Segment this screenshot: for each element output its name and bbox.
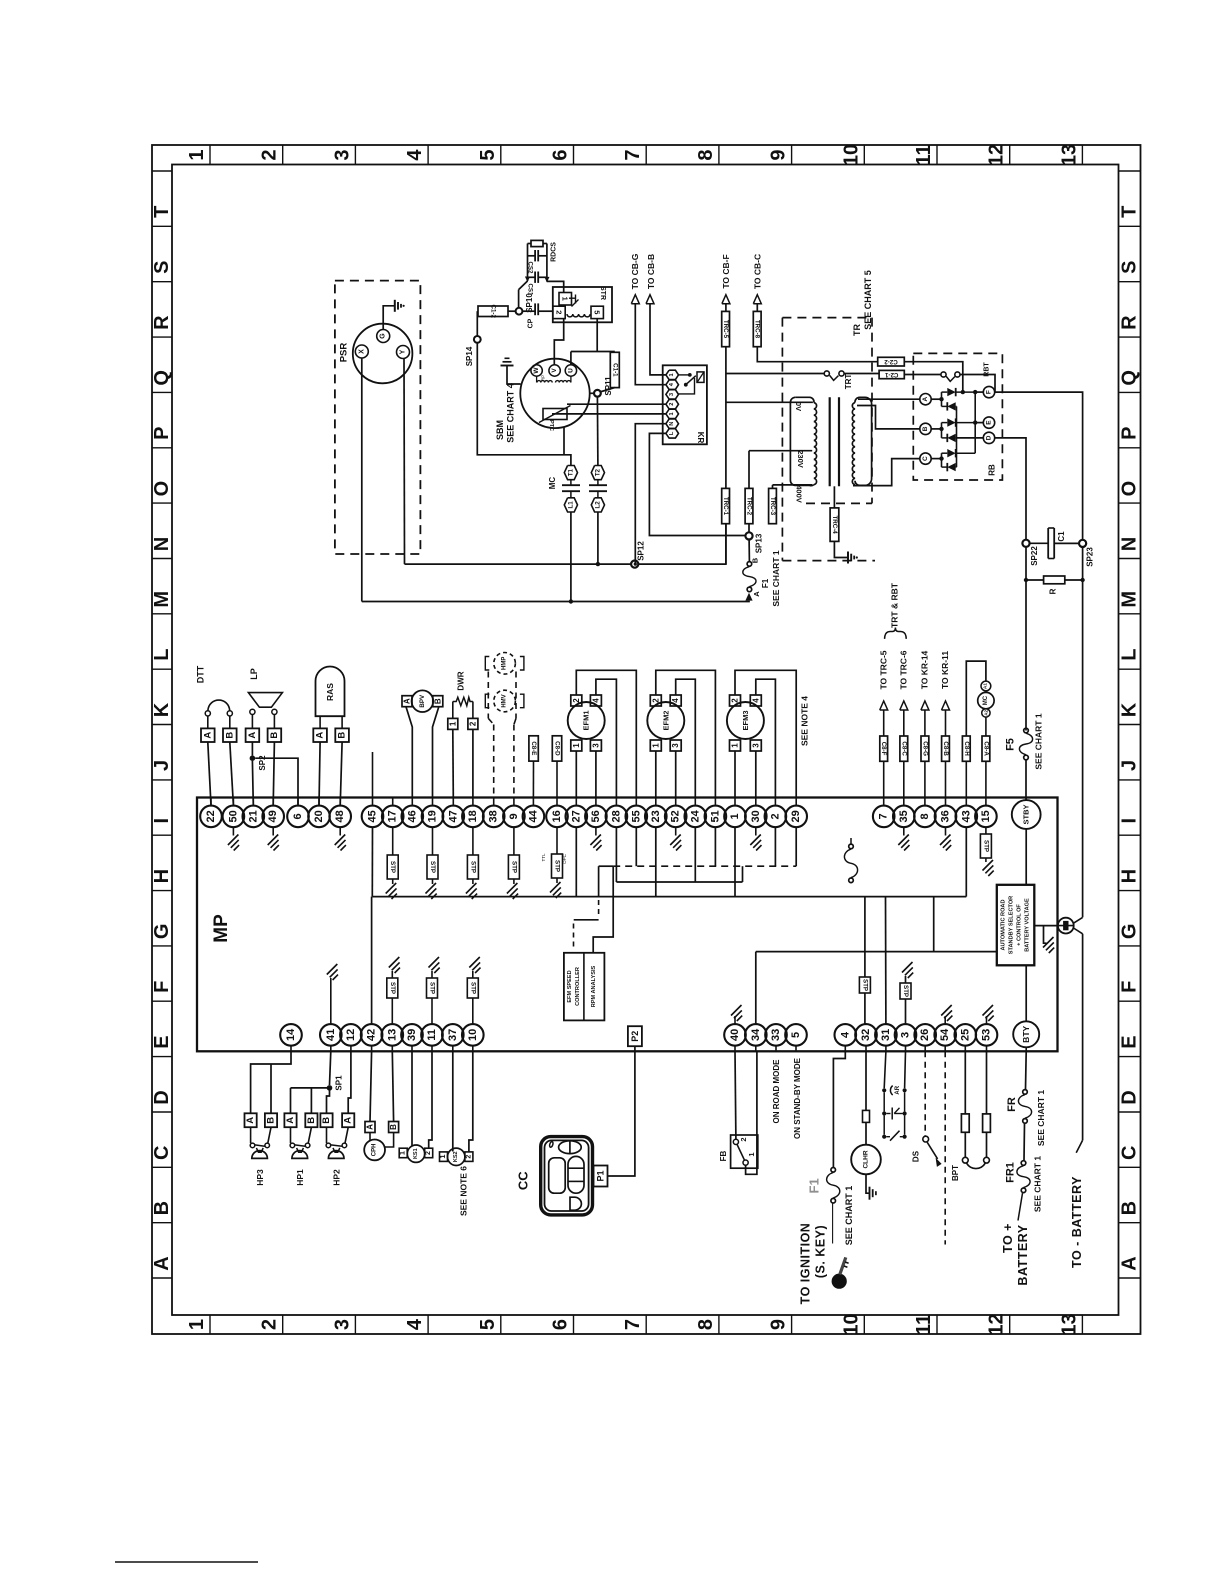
rectifier output F <box>975 391 983 393</box>
svg-text:CPH: CPH <box>372 1144 378 1157</box>
svg-text:B: B <box>922 426 929 431</box>
BPV pin A <box>402 696 412 707</box>
capacitor bank rails <box>527 244 529 282</box>
svg-text:37: 37 <box>447 1029 459 1041</box>
MP pin 28 <box>615 798 617 806</box>
ground <box>232 827 234 835</box>
svg-text:M: M <box>1119 591 1141 608</box>
svg-text:SP23: SP23 <box>1085 547 1094 567</box>
ground <box>550 882 561 893</box>
svg-text:EFM3: EFM3 <box>741 710 750 730</box>
motor EFM1 <box>568 702 605 739</box>
STR pin 5 <box>591 306 603 318</box>
svg-text:SP2: SP2 <box>258 755 267 771</box>
wire pin 25 <box>964 1051 966 1114</box>
capacitor CS1 <box>528 276 536 278</box>
wire SBM bottom tap <box>563 427 565 455</box>
svg-text:N: N <box>151 537 173 551</box>
fuse TRC-1 <box>722 488 730 523</box>
MP pin 38 <box>493 798 495 806</box>
svg-text:EFM SPEED: EFM SPEED <box>567 970 573 1002</box>
svg-text:B: B <box>321 1117 332 1124</box>
svg-text:B: B <box>433 698 442 704</box>
contactor MC terminal T2 <box>591 466 604 480</box>
junction <box>931 458 941 460</box>
svg-text:C8-H: C8-H <box>963 741 970 756</box>
wire <box>208 742 211 806</box>
svg-text:6: 6 <box>292 813 304 819</box>
wire pin3 down <box>675 751 677 798</box>
svg-text:C1-2: C1-2 <box>490 304 497 318</box>
alarm RAS <box>316 667 345 717</box>
svg-text:W: W <box>533 367 540 374</box>
MP pin 41 <box>330 1046 332 1052</box>
svg-text:C: C <box>922 456 929 461</box>
valve BPV <box>412 690 434 712</box>
contactor MC terminal L1 <box>564 498 577 512</box>
svg-text:17: 17 <box>387 810 399 822</box>
EFM1 pin 1 <box>571 740 582 751</box>
svg-text:A: A <box>343 1117 354 1124</box>
EFM3 pin 3 <box>750 740 761 751</box>
wire STR pin2 to SBM V <box>554 319 563 365</box>
SBM PTC thermistor <box>543 409 567 420</box>
svg-text:9: 9 <box>768 149 790 160</box>
svg-text:STP: STP <box>861 979 868 991</box>
MP pin 8 <box>924 798 926 806</box>
fuse <box>983 1114 991 1132</box>
BPV pin B <box>433 696 443 707</box>
svg-text:G: G <box>1119 924 1141 940</box>
svg-text:T: T <box>1119 206 1141 218</box>
internal bus <box>372 896 966 898</box>
wire KR N to SP12 <box>635 424 666 564</box>
wire SP11 down to T2 <box>596 397 599 466</box>
fuse C8-G <box>924 761 926 797</box>
wires pins to dashed bus <box>635 827 637 866</box>
svg-text:22: 22 <box>205 810 217 822</box>
rectifier input C <box>920 453 931 464</box>
svg-text:K: K <box>1119 702 1141 717</box>
EFM1 pin 3 <box>590 740 601 751</box>
svg-text:F5: F5 <box>1005 738 1017 751</box>
svg-text:T1: T1 <box>567 468 574 476</box>
svg-text:2: 2 <box>731 698 740 703</box>
svg-text:C8-E: C8-E <box>530 741 537 755</box>
svg-text:A2: A2 <box>983 710 988 716</box>
svg-text:33: 33 <box>770 1029 782 1041</box>
svg-text:27: 27 <box>570 810 582 822</box>
svg-text:39: 39 <box>406 1029 418 1041</box>
svg-text:2: 2 <box>259 149 281 160</box>
svg-text:L2: L2 <box>594 501 601 509</box>
MP pin 20 <box>318 798 320 806</box>
MP pin 27 <box>575 798 577 806</box>
svg-text:C2-2: C2-2 <box>884 358 898 365</box>
EFM2 pin 4 <box>670 695 681 706</box>
MP pin 26 <box>924 1046 926 1052</box>
svg-text:2: 2 <box>465 1155 472 1159</box>
svg-text:EFM2: EFM2 <box>661 710 670 730</box>
wire SBM PTC to KR pin 2 <box>567 403 666 405</box>
MP pin 50 <box>232 798 234 806</box>
wire <box>273 742 274 806</box>
svg-text:DTT: DTT <box>196 665 206 683</box>
svg-text:SEE CHART 1: SEE CHART 1 <box>1033 713 1043 769</box>
wire pin 41 to SP1 <box>330 1051 331 1085</box>
MP pin 55 <box>635 798 637 806</box>
wire selector to BTY <box>1025 965 1027 1021</box>
wire <box>251 761 254 806</box>
svg-text:13: 13 <box>1058 1313 1080 1335</box>
wire pin1 down <box>655 751 657 798</box>
horn HP1 pin A <box>284 1113 296 1127</box>
svg-text:SBM: SBM <box>495 420 505 440</box>
svg-text:9: 9 <box>508 813 520 819</box>
fuse C2-1 <box>879 370 904 378</box>
wire pin 13 to CPH B <box>392 1051 393 1121</box>
svg-text:55: 55 <box>630 810 642 822</box>
ground <box>903 827 905 835</box>
svg-text:9: 9 <box>768 1319 790 1330</box>
svg-text:TRC-1: TRC-1 <box>722 497 729 516</box>
svg-text:C8-F: C8-F <box>880 742 887 756</box>
svg-text:C: C <box>151 1146 173 1160</box>
svg-text:CLHR: CLHR <box>863 1150 870 1168</box>
sensor HMV dashed <box>494 690 516 712</box>
svg-text:29: 29 <box>790 810 802 822</box>
svg-text:FR: FR <box>1006 1097 1018 1112</box>
ground above pin 53 <box>986 1016 988 1024</box>
wire TO TRC-5 <box>880 701 888 710</box>
MP pin 45 <box>372 798 374 806</box>
MP pin STBY <box>1025 798 1027 801</box>
svg-text:U: U <box>567 368 574 373</box>
anode rail <box>956 406 958 467</box>
svg-text:STP: STP <box>469 982 476 994</box>
svg-text:E: E <box>1119 1035 1141 1048</box>
ground <box>469 957 480 968</box>
horn HP1 pin B <box>305 1113 317 1127</box>
svg-text:13: 13 <box>1058 144 1080 166</box>
wire secondary to A <box>858 398 920 400</box>
dashed wires HMP/HMV <box>487 672 489 719</box>
svg-text:TRC-3: TRC-3 <box>769 497 776 516</box>
svg-text:2: 2 <box>259 1319 281 1330</box>
shield termination STP <box>556 827 558 854</box>
svg-text:L: L <box>151 649 173 661</box>
svg-text:B: B <box>306 1117 317 1124</box>
svg-text:46: 46 <box>406 810 418 822</box>
fuse FR link <box>1023 1090 1028 1095</box>
svg-text:B: B <box>151 1201 173 1215</box>
MP pin 25 <box>964 1046 966 1052</box>
svg-text:E: E <box>151 1035 173 1048</box>
svg-text:A: A <box>202 732 213 739</box>
svg-text:41: 41 <box>325 1029 337 1041</box>
svg-text:RDCS: RDCS <box>551 242 558 262</box>
wire F1 to SP13 <box>748 539 750 561</box>
connector P1 <box>594 1166 608 1187</box>
switch KS1 <box>399 1148 407 1158</box>
MP pin 4 <box>844 1046 846 1052</box>
svg-text:STP: STP <box>389 982 396 994</box>
svg-text:12: 12 <box>345 1029 357 1041</box>
svg-text:A: A <box>366 1124 375 1130</box>
MC contacts <box>562 484 580 486</box>
svg-text:HP1: HP1 <box>295 1169 305 1186</box>
svg-text:R: R <box>1119 315 1141 330</box>
generator PSR <box>353 324 413 384</box>
wire pin 39 to KS1 <box>411 1051 413 1145</box>
rectifier input B <box>920 423 931 434</box>
svg-text:EFM1: EFM1 <box>582 710 591 730</box>
svg-text:3: 3 <box>331 149 353 160</box>
ground <box>866 1174 869 1193</box>
svg-text:5: 5 <box>477 1319 499 1330</box>
resistor R <box>1024 578 1028 582</box>
wire pin 42 to CPH A <box>370 1051 372 1121</box>
wire pin 3 to AR <box>904 1051 907 1088</box>
fuse FR1 link <box>1021 1161 1026 1166</box>
svg-text:KR: KR <box>696 432 705 444</box>
svg-text:SEE CHART 1: SEE CHART 1 <box>771 550 781 606</box>
fuse <box>863 1110 870 1122</box>
node SP10 <box>516 308 523 315</box>
svg-text:STP: STP <box>554 860 561 872</box>
horn HP2 <box>326 1127 328 1143</box>
svg-text:STP: STP <box>902 985 909 997</box>
svg-text:4: 4 <box>671 698 680 703</box>
svg-text:2: 2 <box>555 310 564 314</box>
ground <box>507 883 518 894</box>
MP pin 44 <box>532 798 534 806</box>
svg-text:4: 4 <box>751 698 760 703</box>
EFM2 pin 1 <box>650 740 661 751</box>
svg-text:S: S <box>1119 261 1141 274</box>
svg-text:D: D <box>151 1090 173 1104</box>
svg-text:SP12: SP12 <box>637 541 646 561</box>
horn CPH <box>364 1140 385 1161</box>
svg-text:11: 11 <box>913 1314 935 1335</box>
svg-text:16: 16 <box>551 810 563 822</box>
svg-text:48: 48 <box>334 810 346 822</box>
svg-text:20: 20 <box>313 810 325 822</box>
svg-text:T: T <box>151 206 173 218</box>
KR internal switch <box>679 374 689 376</box>
svg-text:A: A <box>922 397 929 402</box>
MP pin BTY <box>1025 1047 1027 1051</box>
MP pin 16 <box>556 798 558 806</box>
wire bus link <box>933 897 935 952</box>
DTT pin B <box>229 716 231 728</box>
shield termination STP <box>432 827 434 855</box>
MP pin 54 <box>944 1046 946 1052</box>
svg-text:Q: Q <box>1119 370 1141 386</box>
svg-text:M: M <box>151 591 173 608</box>
svg-text:O: O <box>1119 481 1141 497</box>
svg-text:BTY: BTY <box>1021 1025 1031 1042</box>
svg-text:14: 14 <box>285 1028 297 1041</box>
MP pin 47 <box>452 798 454 806</box>
MP pin 17 <box>392 798 394 806</box>
svg-text:44: 44 <box>527 809 539 822</box>
PSR dashed enclosure <box>335 281 421 554</box>
wire to + battery <box>1018 1193 1023 1220</box>
svg-text:49: 49 <box>267 810 279 822</box>
svg-text:AUTOMATIC ROAD: AUTOMATIC ROAD <box>1001 899 1007 950</box>
KR pin 1 <box>666 409 679 418</box>
fuse C8-E <box>529 736 538 761</box>
EFM3 pin 2 <box>730 695 741 706</box>
wire C2-2 to bridge <box>904 362 963 392</box>
svg-text:CONTROLLER: CONTROLLER <box>575 967 581 1006</box>
ground <box>983 860 994 871</box>
cathode rail <box>974 392 976 453</box>
node SP11 <box>594 390 601 397</box>
ground <box>389 957 400 968</box>
footer rule <box>115 1561 258 1563</box>
wire F to battery rail <box>995 392 1083 540</box>
svg-text:11: 11 <box>913 144 935 165</box>
RAS pin B <box>341 716 343 728</box>
svg-text:CC: CC <box>516 1171 531 1190</box>
svg-text:1: 1 <box>731 743 740 748</box>
arrow A <box>745 593 752 601</box>
wire LP A to SP2 <box>251 742 253 755</box>
KR pin 4 <box>666 380 679 389</box>
horn HP3 pin B <box>265 1113 277 1127</box>
horn HP3 <box>250 1127 252 1143</box>
svg-text:3: 3 <box>669 393 675 396</box>
horn HP1 <box>290 1127 292 1143</box>
motor EFM2 <box>647 702 684 739</box>
grid row ticks <box>152 170 172 172</box>
wire to ignition key <box>832 1203 834 1243</box>
ground <box>429 957 440 968</box>
ground <box>466 883 477 894</box>
MP pin 6 <box>297 798 299 806</box>
wire to - battery <box>1076 1140 1082 1153</box>
wire SP13 up to TRC-2 <box>748 523 750 532</box>
svg-text:C8-G: C8-G <box>921 741 928 756</box>
svg-text:STP: STP <box>982 840 989 852</box>
svg-text:J: J <box>151 760 173 771</box>
wire SP14 down to T1 feed <box>477 343 571 466</box>
wire TRC-1 to SP12 bus <box>725 523 727 564</box>
svg-text:TO TRC-5: TO TRC-5 <box>878 650 888 689</box>
wire pin 4 to fuse F1 <box>833 1051 845 1168</box>
svg-text:5: 5 <box>593 310 602 314</box>
wire G to ground <box>383 306 394 330</box>
MP pin 33 <box>775 1046 777 1052</box>
LP pin B <box>273 715 275 729</box>
svg-text:F1: F1 <box>806 1178 821 1193</box>
MP pin 24 <box>694 798 696 806</box>
svg-text:A: A <box>285 1117 296 1124</box>
MP pin 51 <box>714 798 716 806</box>
svg-text:TO - BATTERY: TO - BATTERY <box>1070 1176 1084 1268</box>
MP pin 49 <box>272 798 274 806</box>
shield termination STP <box>392 827 394 855</box>
svg-text:1: 1 <box>669 412 675 415</box>
svg-text:BPV: BPV <box>419 694 426 708</box>
capacitor CP <box>522 310 535 312</box>
svg-text:B: B <box>389 1124 398 1130</box>
svg-text:2: 2 <box>769 813 781 819</box>
primary tap 230V <box>748 451 750 489</box>
svg-text:28: 28 <box>610 810 622 822</box>
MP pin 32 <box>865 1046 867 1052</box>
svg-text:BATTERY: BATTERY <box>1016 1224 1030 1285</box>
svg-text:MC: MC <box>983 695 989 705</box>
svg-text:DWR: DWR <box>457 671 466 690</box>
svg-text:19: 19 <box>427 810 439 822</box>
MP pin 30 <box>755 798 757 806</box>
svg-text:2: 2 <box>739 1137 748 1141</box>
node SP1 <box>327 1085 333 1091</box>
junction <box>569 599 573 603</box>
svg-text:1: 1 <box>669 373 675 376</box>
svg-text:C8-B: C8-B <box>942 741 949 756</box>
wire SP10 up to capacitor bank <box>518 290 520 308</box>
EFM1 pin 4 <box>590 695 601 706</box>
svg-text:V: V <box>551 368 558 373</box>
svg-text:SEE CHART 1: SEE CHART 1 <box>1036 1090 1046 1146</box>
STR pin 1 <box>559 293 572 306</box>
svg-text:BPT: BPT <box>951 1165 960 1181</box>
svg-text:35: 35 <box>898 810 910 822</box>
svg-text:4: 4 <box>404 1318 426 1330</box>
svg-text:(S. KEY): (S. KEY) <box>814 1225 828 1278</box>
svg-text:1: 1 <box>747 1152 756 1156</box>
svg-text:C8-C: C8-C <box>900 741 907 756</box>
svg-text:50: 50 <box>227 810 239 822</box>
wire X bus to F1 arrow <box>362 600 749 603</box>
ground <box>902 962 913 973</box>
svg-text:P2: P2 <box>630 1031 640 1042</box>
svg-text:TRT & RBT: TRT & RBT <box>890 582 900 628</box>
svg-text:D: D <box>986 435 993 440</box>
relay KR <box>663 365 707 444</box>
MP pin 1 <box>734 798 736 806</box>
fuse F5 link <box>1024 728 1029 733</box>
svg-text:F: F <box>986 390 993 394</box>
svg-text:1: 1 <box>186 149 208 160</box>
svg-text:A: A <box>752 591 761 597</box>
svg-text:A: A <box>247 732 258 739</box>
svg-text:3: 3 <box>671 743 680 748</box>
MP pin 46 <box>411 798 413 806</box>
contactor MC terminal L2 <box>591 498 604 512</box>
svg-text:3: 3 <box>900 1032 912 1038</box>
svg-text:B: B <box>269 732 280 739</box>
MP pin 40 <box>734 1046 736 1052</box>
MP pin 39 <box>411 1046 413 1052</box>
svg-text:23: 23 <box>650 810 662 822</box>
wire selector to G <box>1034 925 1058 927</box>
TR primary winding <box>795 397 814 402</box>
svg-text:TO +: TO + <box>1001 1223 1015 1253</box>
horn CPH pin B <box>389 1122 399 1133</box>
horn HP2 pin A <box>342 1113 354 1127</box>
wire pin 10 to KS2 2 <box>469 1051 473 1152</box>
svg-text:21: 21 <box>247 810 259 822</box>
svg-text:54: 54 <box>939 1028 951 1041</box>
flow arrows <box>525 277 530 283</box>
svg-text:6: 6 <box>550 149 572 160</box>
fuse C8-F <box>883 761 885 797</box>
